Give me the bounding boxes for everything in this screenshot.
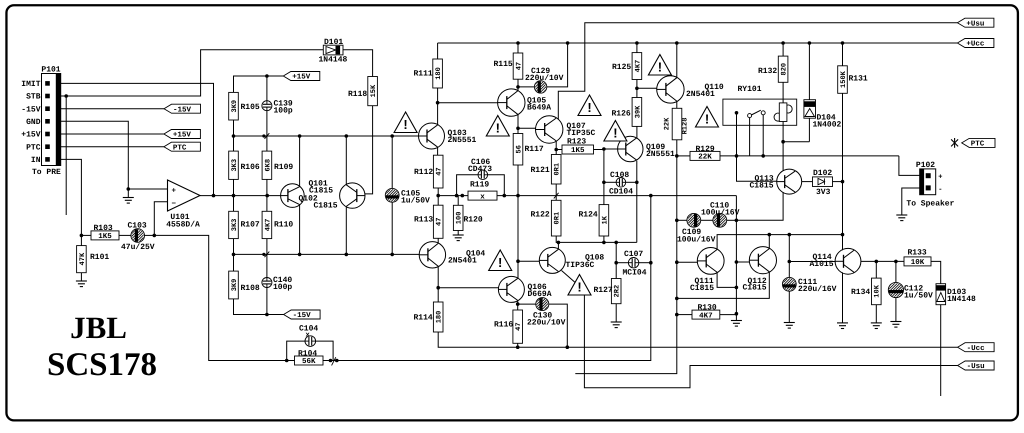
wire Q113 base	[737, 156, 777, 181]
transistor Q112	[743, 247, 777, 293]
svg-text:100p: 100p	[273, 283, 292, 292]
svg-text:R128: R128	[682, 118, 690, 135]
flag +15V (top)	[283, 72, 320, 82]
wire Q112 emitter	[677, 272, 770, 298]
svg-text:R108: R108	[241, 284, 260, 293]
svg-text:R112: R112	[414, 168, 433, 177]
warning triangle (Q104)	[489, 250, 512, 271]
hop slash R121/R122	[554, 193, 559, 199]
svg-text:47: 47	[515, 322, 523, 330]
svg-text:D102: D102	[813, 169, 832, 178]
svg-text:R107: R107	[241, 220, 260, 229]
hop slash R104	[332, 357, 336, 365]
svg-text:4K7: 4K7	[634, 60, 642, 73]
wire Q110 base	[637, 87, 657, 89]
svg-text:!: !	[658, 60, 662, 75]
wire to Q113 bottom	[736, 192, 783, 220]
svg-text:R105: R105	[241, 103, 260, 112]
svg-text:MCI04: MCI04	[623, 269, 647, 278]
svg-text:3K3: 3K3	[231, 219, 239, 232]
svg-text:0R1: 0R1	[554, 212, 562, 225]
warning triangle (Q108)	[568, 275, 591, 296]
wire relay pole	[736, 113, 738, 156]
svg-text:RY101: RY101	[738, 85, 762, 94]
capacitor C106	[457, 158, 505, 196]
svg-text:R114: R114	[414, 314, 433, 323]
svg-text:R131: R131	[849, 75, 868, 84]
svg-text:TIP36C: TIP36C	[566, 261, 595, 270]
svg-text:820: 820	[781, 63, 789, 76]
ground R134	[871, 323, 882, 329]
wire Q107 emitter	[554, 142, 558, 155]
svg-text:PTC: PTC	[173, 143, 187, 152]
svg-text:+Usu: +Usu	[966, 20, 984, 28]
wire IN pin	[61, 159, 83, 237]
svg-text:R106: R106	[241, 163, 260, 172]
wire feedback to riser	[337, 196, 651, 361]
svg-text:C108: C108	[610, 171, 629, 180]
transistor Q114	[810, 248, 861, 274]
svg-text:!: !	[498, 255, 502, 270]
wire Q106 base	[438, 287, 498, 289]
svg-text:-: -	[938, 186, 942, 194]
wire R111 col top	[437, 43, 439, 59]
svg-text:3K9: 3K9	[231, 279, 239, 292]
svg-text:47: 47	[515, 62, 523, 70]
svg-text:22K: 22K	[664, 117, 672, 130]
svg-text:4K7: 4K7	[264, 219, 272, 232]
svg-text:R115: R115	[494, 60, 513, 69]
resistor R115	[494, 43, 524, 91]
svg-text:1N4002: 1N4002	[813, 121, 842, 130]
svg-text:C1815: C1815	[690, 284, 714, 293]
svg-text:R126: R126	[612, 110, 631, 119]
title JBL	[70, 310, 127, 345]
warning triangle (C129)	[578, 95, 601, 116]
svg-text:C1815: C1815	[314, 201, 338, 210]
wire Q114 emitter	[842, 272, 844, 323]
wire P102 pin2 to ground	[902, 188, 920, 215]
svg-text:-15V: -15V	[293, 312, 312, 320]
resistor R107	[229, 211, 260, 271]
svg-text:IMIT: IMIT	[21, 80, 40, 89]
capacitor C107	[616, 250, 652, 278]
capacitor C109	[677, 213, 716, 244]
svg-text:R121: R121	[531, 166, 550, 175]
wire Q109 emitter	[635, 161, 639, 243]
svg-text:R127: R127	[594, 286, 613, 295]
warning triangle (Q109)	[604, 121, 627, 142]
transistor Q107	[536, 116, 596, 143]
op-amp U101	[166, 180, 200, 230]
svg-text:3K9: 3K9	[231, 100, 239, 113]
svg-text:220u/16V: 220u/16V	[798, 285, 837, 294]
capacitor C105	[378, 136, 431, 254]
resistor R122	[531, 200, 562, 236]
svg-text:39K: 39K	[634, 105, 642, 118]
svg-text:3K3: 3K3	[231, 159, 239, 172]
svg-text:!: !	[403, 117, 407, 132]
flag +15V (left)	[164, 130, 201, 140]
svg-text:R132: R132	[758, 67, 777, 76]
resistor R105	[229, 92, 260, 151]
title SCS178	[47, 347, 157, 383]
svg-text:R116: R116	[494, 321, 513, 330]
rail +Ucc	[438, 41, 958, 45]
wire Q103 emitter	[437, 147, 439, 155]
resistor R116	[494, 310, 523, 347]
flag +Ucc	[957, 39, 994, 49]
svg-text:!: !	[587, 100, 591, 115]
svg-text:0R1: 0R1	[554, 163, 562, 176]
ground C111	[784, 323, 795, 329]
wire -15V pin to flag	[61, 108, 164, 110]
wire R128col junction	[675, 154, 679, 316]
capacitor C104	[287, 325, 333, 361]
resistor R120	[453, 196, 483, 235]
resistor R111	[414, 59, 444, 88]
svg-text:2N5551: 2N5551	[448, 136, 477, 145]
wire D103 down	[940, 305, 942, 396]
connector P101	[21, 66, 61, 178]
svg-text:C1815: C1815	[743, 283, 767, 292]
svg-text:1K5: 1K5	[571, 147, 585, 155]
junction C103/minus	[153, 234, 157, 238]
wire Q114 top	[842, 235, 844, 251]
junction R112/R113	[436, 188, 440, 205]
wire feedback down	[154, 235, 286, 360]
svg-text:R124: R124	[579, 210, 598, 219]
warning triangle (Q105)	[486, 116, 509, 137]
resistor R134	[851, 261, 882, 323]
svg-text:!: !	[613, 126, 617, 141]
resistor R127	[594, 279, 622, 323]
ground R127	[611, 322, 622, 328]
svg-text:2N5551: 2N5551	[646, 150, 675, 159]
svg-text:47K: 47K	[79, 252, 87, 265]
wire Q114 base	[789, 261, 835, 263]
svg-text:-Usu: -Usu	[967, 363, 985, 371]
svg-text:100p: 100p	[274, 106, 293, 115]
svg-text:2R2: 2R2	[614, 285, 622, 298]
capacitor C130	[518, 298, 568, 348]
junction Q109 base	[602, 147, 617, 151]
transistor Q103	[419, 123, 477, 149]
wire Q110 bottom	[676, 101, 678, 108]
svg-text:C103: C103	[128, 222, 147, 231]
svg-text:GND: GND	[26, 118, 41, 127]
diode D102	[802, 169, 843, 197]
resistor R109	[262, 151, 293, 211]
svg-text:100u/16V: 100u/16V	[701, 208, 740, 217]
wire D101 to R118	[343, 50, 373, 77]
wire R118 to Q102 base	[365, 106, 373, 194]
svg-text:R103: R103	[94, 224, 113, 233]
svg-text:P102: P102	[916, 161, 935, 170]
resistor R123	[556, 137, 604, 155]
transistor Q113	[750, 169, 802, 194]
svg-text:R111: R111	[414, 70, 433, 79]
svg-text:+15V: +15V	[173, 132, 192, 140]
svg-text:D669A: D669A	[528, 290, 552, 299]
resistor R133	[904, 249, 931, 268]
svg-text:1K: 1K	[601, 215, 609, 224]
wire Q111 base	[677, 261, 698, 263]
node bus2	[232, 253, 420, 257]
wire Q111 emitter	[717, 273, 736, 288]
svg-text:+: +	[938, 174, 942, 182]
svg-text:To PRE: To PRE	[32, 168, 61, 177]
ground R120	[453, 235, 464, 241]
resistor R101	[77, 235, 110, 281]
ground C112	[890, 322, 901, 328]
flag -15V (bottom)	[284, 310, 321, 320]
wire relay contact b	[762, 115, 764, 156]
svg-text:100u/16V: 100u/16V	[677, 236, 716, 245]
svg-text:!: !	[705, 112, 709, 127]
wire R124 column	[602, 149, 606, 205]
wire +15V to R105/C139	[234, 74, 284, 101]
svg-text:STB: STB	[26, 93, 41, 102]
svg-text:R134: R134	[851, 288, 870, 297]
relay RY101	[723, 85, 797, 125]
wire PTC pin to flag	[61, 146, 164, 148]
svg-text:2N5401: 2N5401	[448, 256, 477, 265]
svg-text:-15V: -15V	[173, 106, 192, 114]
svg-text:R104: R104	[298, 349, 317, 358]
wire stub left	[575, 315, 677, 374]
svg-text:180: 180	[436, 311, 444, 324]
svg-text:180: 180	[435, 67, 443, 80]
capacitor C110	[701, 201, 740, 227]
svg-text:R101: R101	[90, 253, 109, 262]
svg-text:220u/10V: 220u/10V	[525, 74, 564, 83]
resistor R128	[664, 108, 690, 156]
transistor Q105	[498, 89, 552, 116]
wire to Q105 base	[438, 102, 498, 104]
svg-text:4K7: 4K7	[699, 312, 713, 320]
rail +Usu	[558, 23, 957, 120]
svg-text:1u/50V: 1u/50V	[401, 196, 430, 205]
svg-text:220u/10V: 220u/10V	[527, 319, 566, 328]
capacitor C129	[518, 43, 568, 93]
transistor Q104	[419, 242, 485, 268]
wire Q107 base	[518, 127, 536, 129]
diode D101	[319, 38, 348, 64]
resistor R114	[414, 302, 444, 332]
svg-text:C107: C107	[624, 250, 643, 259]
resistor R125	[612, 43, 642, 88]
svg-text:R120: R120	[464, 215, 483, 224]
resistor R106	[229, 151, 260, 211]
wire Q110 top	[676, 43, 678, 77]
resistor R108	[229, 271, 284, 316]
flag -Usu	[958, 361, 995, 371]
resistor R117	[513, 134, 544, 196]
node bus1	[232, 134, 419, 138]
wire relay contact a	[749, 118, 751, 156]
resistor R113	[414, 205, 444, 238]
svg-text:2N5401: 2N5401	[686, 90, 715, 99]
wire Q109 collector	[636, 126, 638, 137]
svg-text:SCS178: SCS178	[47, 347, 157, 383]
wire to op-amp - input	[154, 202, 167, 236]
resistor R129	[677, 145, 737, 162]
svg-text:R117: R117	[525, 145, 544, 154]
svg-text:10K: 10K	[874, 284, 882, 297]
wire R133 line	[861, 260, 904, 264]
svg-text:-15V: -15V	[21, 105, 40, 114]
svg-text:R110: R110	[274, 220, 293, 229]
wire Q106 emitter	[516, 301, 520, 310]
svg-text:+15V: +15V	[292, 74, 311, 82]
svg-text:!: !	[577, 280, 581, 295]
wire Q108 collector	[557, 242, 559, 249]
wire +15V pin to flag	[61, 133, 164, 135]
connector P102	[906, 161, 954, 209]
svg-text:!: !	[496, 121, 500, 136]
wire R114 to -Ucc rail	[438, 332, 957, 349]
resistor R130	[677, 303, 737, 320]
wire Q112 collector	[768, 235, 770, 249]
junction R125/R126	[635, 87, 639, 91]
wire driver node	[556, 236, 637, 244]
wire seg2 end down	[735, 196, 739, 223]
svg-text:CD473: CD473	[468, 165, 492, 174]
svg-text:47: 47	[436, 167, 444, 175]
svg-text:3V3: 3V3	[816, 188, 831, 197]
wire R111 to Q103	[436, 88, 440, 125]
diode D104	[804, 43, 842, 130]
capacitor C108	[604, 171, 637, 197]
wire IMIT to op-amp output	[61, 83, 214, 195]
resistor R110	[262, 211, 293, 277]
svg-text:R133: R133	[908, 249, 927, 258]
wire STB to D101 line	[61, 50, 323, 96]
svg-text:R109: R109	[274, 163, 293, 172]
wire Q105 collector	[516, 115, 520, 134]
svg-text:To Speaker: To Speaker	[906, 199, 954, 208]
flag PTC (right)	[951, 138, 995, 149]
resistor R131	[838, 43, 868, 93]
wire speaker line	[735, 154, 920, 175]
wire Q112 base	[736, 261, 749, 263]
svg-text:R129: R129	[696, 145, 715, 154]
svg-text:+15V: +15V	[21, 131, 40, 140]
svg-text:R118: R118	[348, 90, 367, 99]
svg-text:15K: 15K	[370, 84, 378, 97]
transistor Q110	[657, 76, 724, 103]
svg-text:4558D/A: 4558D/A	[166, 221, 200, 230]
svg-text:x: x	[480, 193, 485, 201]
svg-text:100: 100	[456, 212, 464, 225]
ground GND pin	[123, 198, 134, 204]
svg-text:B649A: B649A	[527, 104, 551, 113]
resistor R121	[531, 155, 562, 201]
diode D103	[936, 284, 976, 305]
svg-text:R130: R130	[698, 303, 717, 312]
svg-text:JBL: JBL	[70, 310, 127, 345]
ground mid column	[731, 321, 742, 327]
wire Q102 collector	[345, 136, 347, 185]
svg-text:47u/25V: 47u/25V	[121, 243, 155, 252]
svg-text:1N4148: 1N4148	[319, 55, 348, 64]
svg-text:C1815: C1815	[750, 182, 774, 191]
transistor Q111	[690, 248, 724, 293]
wire Q108 emitter to -Usu	[562, 271, 958, 388]
svg-text:PTC: PTC	[26, 143, 41, 152]
warning triangle (Q110)	[648, 55, 671, 76]
capacitor C103	[119, 222, 155, 252]
capacitor C112	[881, 261, 934, 321]
wire R117col to Q106	[516, 196, 520, 278]
resistor R126	[612, 88, 643, 126]
wire output sense line	[438, 194, 736, 198]
wire op-amp + input	[128, 189, 167, 198]
hop slash C139/R109 at bus	[262, 133, 269, 139]
flag -Ucc	[958, 343, 995, 353]
wire R113 to Q104	[437, 238, 439, 243]
capacitor C140	[262, 276, 293, 314]
wire Q101 emitter	[299, 205, 301, 254]
wire relay coil top	[782, 82, 784, 103]
resistor R132	[758, 43, 789, 82]
svg-text:150K: 150K	[840, 70, 848, 88]
wire coil bottom	[781, 122, 785, 171]
wire R131 column	[841, 93, 845, 236]
wire op-amp output	[200, 194, 281, 198]
resistor R124	[579, 205, 610, 243]
ground R101	[76, 281, 87, 287]
svg-text:+: +	[172, 187, 177, 195]
wire Q108 base	[518, 260, 539, 262]
resistor R104	[285, 349, 323, 366]
transistor Q106	[498, 276, 551, 302]
svg-text:R125: R125	[612, 63, 631, 72]
warning triangle (Q103)	[394, 112, 417, 133]
svg-text:56: 56	[515, 145, 523, 153]
svg-text:10K: 10K	[911, 258, 925, 267]
warning triangle (relay)	[696, 107, 719, 128]
svg-text:D101: D101	[324, 38, 343, 47]
flag +Usu	[957, 18, 994, 28]
svg-text:P101: P101	[41, 66, 60, 75]
ground Q114	[837, 323, 848, 329]
wire Q111 collector	[717, 233, 842, 249]
svg-text:R119: R119	[470, 181, 489, 190]
hop slash R110/C140 at bus2	[262, 252, 269, 258]
wire Q102 emitter	[345, 207, 347, 255]
wire to D104	[783, 118, 809, 142]
junction STB stub	[64, 94, 68, 215]
ground P102	[896, 215, 907, 221]
wire mid column	[735, 220, 739, 320]
svg-text:56K: 56K	[302, 357, 316, 366]
svg-text:PTC: PTC	[971, 140, 985, 149]
flag PTC (left)	[164, 142, 201, 152]
svg-text:R123: R123	[567, 137, 586, 146]
svg-text:-Ucc: -Ucc	[967, 345, 986, 353]
resistor R103	[81, 224, 119, 241]
wire GND pin	[61, 121, 130, 191]
resistor R118	[348, 77, 378, 106]
svg-text:47: 47	[436, 218, 444, 226]
svg-text:6K8: 6K8	[264, 159, 272, 172]
resistor R119	[468, 181, 497, 202]
transistor Q102	[299, 183, 366, 210]
capacitor C139	[262, 99, 293, 151]
resistor R112	[414, 155, 444, 188]
